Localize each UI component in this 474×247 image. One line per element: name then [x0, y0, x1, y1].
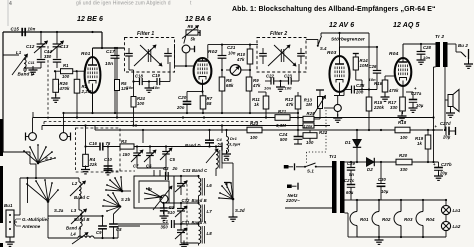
- svg-text:C3: C3: [163, 166, 169, 171]
- socket Bu1: [4, 203, 20, 246]
- wire riser x222 mid: [221, 124, 223, 133]
- svg-text:47k: 47k: [285, 102, 294, 107]
- ground input section: [29, 66, 38, 74]
- capacitor C8: [109, 208, 122, 239]
- svg-text:10n: 10n: [105, 61, 113, 66]
- label Band D osc: [185, 143, 201, 148]
- ground filter 2: [276, 80, 285, 92]
- wire Roe3 cathode stub: [334, 95, 340, 97]
- svg-text:C19: C19: [152, 73, 161, 78]
- svg-text:C26: C26: [369, 64, 378, 69]
- capacitor C30: [377, 161, 389, 200]
- svg-text:20n: 20n: [176, 105, 185, 110]
- wire left frame vertical: [3, 0, 8, 152]
- svg-text:C32: C32: [182, 198, 191, 203]
- svg-text:S.2d: S.2d: [235, 208, 245, 213]
- capacitor C31 variable: [175, 224, 187, 243]
- svg-text:12k: 12k: [121, 86, 129, 91]
- dashed gang trimmers: [107, 170, 135, 172]
- capacitor C27c electrolytic: [344, 170, 355, 200]
- svg-text:C27b: C27b: [441, 162, 452, 167]
- oscillator box outer: [134, 176, 174, 208]
- label C31 BandA: [182, 220, 207, 225]
- svg-text:Störbegrenzer: Störbegrenzer: [331, 37, 366, 43]
- svg-text:500: 500: [280, 137, 288, 142]
- svg-text:C8: C8: [116, 227, 122, 232]
- wire band bottom bus: [180, 241, 199, 247]
- capacitor C25: [341, 83, 377, 96]
- resistor R5: [115, 47, 129, 119]
- svg-text:Rö4: Rö4: [389, 51, 399, 57]
- wire riser x250 bus: [249, 113, 251, 122]
- svg-text:D2: D2: [367, 167, 373, 172]
- svg-text:C33: C33: [183, 168, 192, 173]
- svg-text:330: 330: [400, 167, 408, 172]
- svg-text:G.-Multiplier: G.-Multiplier: [22, 217, 49, 222]
- ground under S2d: [229, 213, 238, 221]
- left margin corner mark: [0, 243, 3, 247]
- heater Roe2: [372, 200, 391, 237]
- label G-Multiplier: [14, 217, 49, 229]
- inductor L8: [199, 224, 213, 246]
- svg-text:350: 350: [161, 225, 169, 230]
- svg-text:Band D: Band D: [185, 143, 201, 148]
- oscillator rotor: [144, 186, 172, 210]
- svg-text:470k: 470k: [59, 86, 70, 91]
- svg-text:Bu 2: Bu 2: [458, 43, 468, 48]
- wire input ground row: [24, 68, 41, 71]
- capacitor C21: [218, 45, 236, 70]
- ground heater chain: [375, 236, 384, 244]
- label C33 BandC: [183, 168, 209, 173]
- resistor R6 gain pot: [182, 24, 200, 44]
- jack circle a: [334, 104, 341, 111]
- wire Roe2 cathode row: [187, 90, 204, 92]
- tube type label 12BA6: [185, 16, 211, 23]
- capacitor C32 variable: [175, 203, 187, 225]
- capacitor C1: [118, 219, 200, 230]
- svg-text:S.1: S.1: [307, 169, 314, 174]
- svg-text:Rö3: Rö3: [404, 217, 413, 222]
- capacitor C15: [11, 27, 36, 37]
- svg-text:1M: 1M: [306, 102, 312, 107]
- capacitor C33 variable: [175, 176, 199, 195]
- wire riser to tube row: [101, 32, 103, 48]
- label Band A left: [66, 226, 81, 237]
- diode D2: [356, 158, 396, 172]
- resistor R15: [366, 97, 384, 130]
- wire band row C: [168, 175, 199, 177]
- svg-text:3,3µH: 3,3µH: [229, 142, 240, 147]
- inductor L2: [70, 178, 104, 210]
- wire box to row: [134, 170, 154, 176]
- wire Tr2 secondary top: [445, 44, 456, 130]
- wire B+ riser right: [433, 117, 435, 120]
- svg-text:330: 330: [390, 105, 398, 110]
- resistor R7: [200, 92, 213, 115]
- inductor L1: [3, 50, 35, 75]
- tube U2 Roe2: [194, 49, 218, 92]
- jack J2 left: [60, 112, 71, 141]
- wire filter2 to limiter: [306, 40, 318, 47]
- svg-text:L2: L2: [72, 181, 78, 186]
- svg-text:100: 100: [400, 135, 408, 140]
- resistor R18: [395, 120, 446, 140]
- resistor R25: [303, 111, 315, 122]
- capacitor C27d electrolytic: [435, 121, 456, 140]
- svg-text:C9: C9: [96, 230, 102, 235]
- svg-text:12 AV 6: 12 AV 6: [329, 22, 354, 29]
- filter 2 dashed box: [257, 31, 306, 72]
- svg-text:10n: 10n: [228, 51, 236, 56]
- svg-text:C11: C11: [28, 61, 35, 65]
- svg-text:C18: C18: [135, 74, 144, 79]
- wire limiter row: [321, 32, 369, 90]
- svg-text:S 2b: S 2b: [121, 197, 131, 202]
- ground under R26: [51, 92, 60, 102]
- svg-text:75: 75: [106, 141, 111, 146]
- capacitor C16: [86, 141, 121, 151]
- svg-text:220k: 220k: [373, 105, 384, 110]
- svg-text:10n: 10n: [423, 55, 431, 60]
- svg-text:R1: R1: [63, 63, 69, 68]
- svg-text:10n: 10n: [28, 27, 36, 32]
- inductor L4: [48, 216, 118, 244]
- filter 1 dashed box: [125, 31, 175, 72]
- svg-text:22k: 22k: [89, 162, 98, 167]
- switch S2a fan: [26, 179, 104, 217]
- wire anode row y48: [93, 47, 125, 49]
- dotted gang line to S1: [307, 110, 327, 163]
- switch S3 fan: [23, 144, 56, 164]
- svg-text:S.3: S.3: [45, 156, 52, 161]
- wire Tr1 secondary top: [345, 161, 358, 163]
- heater Roe4: [416, 200, 435, 237]
- capacitor C29: [347, 161, 356, 177]
- svg-text:1k: 1k: [254, 102, 259, 107]
- svg-text:Antenne: Antenne: [21, 224, 41, 229]
- svg-text:La2: La2: [453, 224, 461, 229]
- lamp La1: [441, 200, 460, 215]
- ground under R17: [398, 112, 407, 120]
- decoupling dashed box: [76, 128, 121, 172]
- oscillator box ground: [160, 203, 169, 220]
- filter 1 left capacitor: [125, 48, 133, 64]
- svg-text:1k: 1k: [417, 141, 422, 146]
- speaker Sp: [446, 90, 459, 118]
- wire tuner row end bar: [221, 143, 223, 151]
- svg-text:t: t: [190, 1, 192, 7]
- svg-text:2,2M: 2,2M: [81, 89, 92, 94]
- label Netz: [285, 193, 300, 203]
- resistor R24: [129, 64, 146, 127]
- wire tuner bottom junctions: [118, 226, 140, 238]
- svg-text:C5: C5: [170, 157, 176, 162]
- inductor L7: [199, 205, 213, 225]
- meter M1: [221, 65, 251, 76]
- filter 2 right capacitor: [297, 48, 305, 64]
- wire Tr1 heater tap: [345, 199, 356, 201]
- capacitor C12 variable: [26, 32, 48, 59]
- filter 2 tuned coils: [268, 45, 296, 66]
- svg-text:Dr1: Dr1: [230, 136, 238, 141]
- svg-text:C30: C30: [378, 177, 387, 182]
- svg-text:5n: 5n: [218, 142, 223, 147]
- resistor R20: [396, 153, 439, 172]
- junction dots buses: [76, 112, 446, 131]
- wire Tr2 primary bottom: [432, 67, 435, 163]
- capacitor C10: [104, 145, 113, 175]
- svg-text:R21: R21: [278, 109, 287, 114]
- wire Roe3 cathode jack: [339, 92, 341, 96]
- capacitor C17: [105, 48, 120, 113]
- capacitor C24: [279, 130, 302, 144]
- wire bus y125.5: [42, 126, 330, 131]
- svg-text:C21: C21: [227, 45, 236, 50]
- wire grid feed Roe4: [368, 90, 370, 98]
- ground under R16: [381, 93, 390, 101]
- svg-text:60µ: 60µ: [346, 190, 354, 195]
- switch S2c fan: [102, 192, 130, 212]
- jack J1 left: [26, 118, 37, 141]
- svg-text:Bu1: Bu1: [4, 203, 13, 208]
- capacitor C27a electrolytic: [406, 86, 424, 112]
- wire riser x420: [419, 113, 421, 118]
- capacitor C7 trimmer: [131, 147, 143, 169]
- capacitor C5 trimmer: [137, 147, 176, 177]
- svg-text:L4: L4: [71, 232, 77, 237]
- svg-text:10µ: 10µ: [416, 103, 424, 108]
- capacitor C13 variable: [50, 32, 69, 59]
- switch S1: [304, 163, 332, 174]
- wire bus y130: [95, 126, 443, 131]
- svg-text:Rö2: Rö2: [382, 217, 391, 222]
- resistor R14: [353, 54, 369, 91]
- capacitor C9: [96, 217, 107, 239]
- svg-text:C15: C15: [11, 27, 20, 32]
- wire pot to jack: [324, 107, 334, 109]
- inductor L5: [206, 147, 230, 177]
- jack test point: [182, 45, 194, 66]
- wire coil feed row: [20, 177, 79, 215]
- capacitor C20: [176, 92, 191, 115]
- svg-text:Filter 2: Filter 2: [270, 31, 287, 37]
- resistor R22: [303, 130, 328, 145]
- wire osc to S2d riser: [222, 151, 233, 200]
- resistor R19: [415, 130, 431, 162]
- inductor L3: [71, 208, 90, 238]
- capacitor C28: [417, 44, 432, 64]
- svg-text:12 AQ 5: 12 AQ 5: [393, 22, 420, 29]
- resistor 120k: [303, 123, 314, 128]
- svg-text:gli und die igen Hinweise zu: gli und die igen Hinweise zum Abgleich d: [76, 1, 171, 7]
- svg-text:5k: 5k: [191, 37, 196, 42]
- svg-text:S.2a: S.2a: [54, 208, 64, 213]
- wire heater rail top: [355, 199, 447, 201]
- svg-text:47k: 47k: [252, 83, 261, 88]
- svg-text:10µ: 10µ: [381, 189, 389, 194]
- svg-text:C27d: C27d: [440, 121, 451, 126]
- capacitor C26: [369, 47, 382, 90]
- resistor R21: [275, 109, 290, 128]
- svg-text:Band C: Band C: [192, 168, 208, 173]
- svg-text:C28: C28: [423, 45, 432, 50]
- svg-text:C25: C25: [356, 83, 365, 88]
- wire Tr2 secondary bottom: [448, 63, 453, 65]
- svg-text:R18: R18: [398, 120, 407, 125]
- capacitor C22: [264, 74, 275, 91]
- heater Roe3: [394, 200, 413, 237]
- svg-text:150: 150: [123, 152, 131, 157]
- svg-text:10M: 10M: [360, 63, 369, 68]
- svg-text:L7: L7: [207, 209, 213, 214]
- switch S2d fan: [218, 182, 245, 213]
- svg-text:C27c: C27c: [344, 178, 355, 183]
- capacitor C3: [160, 166, 178, 180]
- faint cropped caption text: [76, 1, 192, 7]
- svg-text:R16: R16: [374, 81, 383, 86]
- wire Tr1 secondary bottom: [345, 213, 358, 237]
- wire lamp return: [445, 231, 447, 237]
- svg-text:C16: C16: [89, 141, 98, 146]
- svg-text:C20: C20: [178, 95, 187, 100]
- svg-text:47k: 47k: [236, 57, 245, 62]
- capacitor C4: [205, 129, 223, 147]
- resistor R4: [81, 124, 97, 173]
- wire riser x63: [62, 113, 64, 118]
- svg-text:100: 100: [62, 74, 70, 79]
- svg-text:L1: L1: [16, 50, 22, 55]
- wire riser x143 to tuner: [142, 129, 144, 150]
- contact T bar: [224, 183, 231, 189]
- wire Roe3 plate row: [340, 46, 379, 48]
- capacitor C27b electrolytic: [433, 162, 452, 180]
- svg-text:10n: 10n: [153, 85, 161, 90]
- potentiometer R13 volume: [304, 90, 326, 119]
- svg-text:+: +: [435, 124, 438, 129]
- svg-text:68k: 68k: [226, 83, 234, 88]
- jack Bu2: [456, 43, 473, 68]
- wire bus dashed AGC: [44, 122, 262, 127]
- left margin black bar 1: [0, 119, 3, 156]
- svg-text:Rö1: Rö1: [81, 51, 91, 57]
- wire S2d stem: [232, 199, 234, 215]
- filter 1 tuned coils: [134, 45, 162, 66]
- lamp La2: [441, 215, 460, 231]
- svg-text:L5: L5: [224, 157, 230, 162]
- svg-text:470k: 470k: [388, 88, 399, 93]
- svg-text:20µ: 20µ: [442, 135, 451, 140]
- capacitor C18: [127, 74, 144, 91]
- capacitor C6 trimmer: [144, 147, 156, 169]
- oscillator box inner: [139, 181, 169, 203]
- svg-text:10n: 10n: [264, 86, 272, 91]
- tube U3 Roe3: [327, 47, 350, 96]
- resistor R12: [285, 92, 301, 130]
- page number: [9, 1, 12, 7]
- mains terminal lower: [285, 183, 332, 208]
- svg-text:D1: D1: [345, 140, 351, 145]
- wire heater rail bottom: [357, 236, 446, 238]
- wire Roe2 plate to filter2: [208, 44, 258, 59]
- svg-text:510: 510: [168, 210, 176, 215]
- svg-text:Abb. 1: Blockschaltung des All: Abb. 1: Blockschaltung des Allband-Empfä…: [232, 6, 436, 13]
- svg-text:Band A: Band A: [66, 226, 81, 231]
- dashed gang line band caps: [186, 180, 188, 245]
- svg-text:68: 68: [207, 101, 212, 106]
- resistor R9: [246, 70, 261, 113]
- svg-text:20µ: 20µ: [439, 171, 448, 176]
- ground filter 1: [145, 80, 154, 92]
- resistor R2: [74, 71, 92, 117]
- mains terminal upper: [284, 163, 305, 170]
- svg-text:R20: R20: [399, 153, 408, 158]
- resistor R11: [252, 92, 269, 118]
- switch S4 noise limiter: [317, 33, 327, 51]
- wire top rail: [3, 31, 102, 33]
- wire riser x160: [159, 118, 161, 126]
- tube type label 12BE6: [77, 16, 103, 23]
- svg-text:4: 4: [9, 1, 12, 7]
- switch S2b fan: [105, 176, 134, 192]
- wire bus B+ y117.5: [33, 112, 434, 118]
- tube type label 12AV6: [329, 22, 354, 29]
- resistor R23: [240, 121, 262, 140]
- resistor R3: [120, 139, 222, 157]
- wire Roe4 plate to Tr2: [403, 43, 436, 45]
- tube U4 Roe4: [389, 44, 411, 97]
- svg-text:C12: C12: [26, 44, 35, 49]
- wire bus AVC y113: [63, 112, 299, 114]
- svg-text:R3: R3: [121, 139, 127, 144]
- svg-text:Tr 2: Tr 2: [435, 34, 444, 40]
- svg-text:La1: La1: [453, 208, 461, 213]
- capacitor C2: [160, 203, 175, 215]
- svg-text:3,3M: 3,3M: [276, 123, 286, 128]
- svg-text:Filter 1: Filter 1: [137, 31, 154, 37]
- tube type label 12AQ5: [393, 22, 420, 29]
- svg-text:120k: 120k: [304, 123, 314, 128]
- svg-text:100: 100: [137, 101, 145, 106]
- resistor R10: [236, 45, 253, 70]
- svg-text:R23: R23: [250, 121, 259, 126]
- wire antenna row: [3, 152, 36, 164]
- heater Roe1: [350, 200, 369, 237]
- svg-text:Band B: Band B: [74, 217, 90, 222]
- svg-text:C17: C17: [106, 49, 115, 54]
- wire filter1 to Roe2 grid: [175, 44, 195, 67]
- wire S3 stem: [35, 164, 37, 179]
- svg-text:Rö3: Rö3: [327, 50, 337, 56]
- capacitor C14: [37, 49, 61, 68]
- ganging dashed line C12-C13: [47, 46, 49, 121]
- svg-text:Rö2: Rö2: [208, 49, 218, 55]
- svg-text:+: +: [414, 86, 417, 91]
- inductor Dr1: [222, 129, 240, 159]
- filter 1 right capacitor: [164, 48, 172, 64]
- svg-text:20n: 20n: [355, 90, 364, 95]
- filter 2 left capacitor: [259, 48, 267, 64]
- label Band D input: [18, 72, 35, 77]
- resistor R17: [388, 97, 405, 114]
- wire band row B: [162, 202, 199, 204]
- svg-text:2n: 2n: [172, 166, 178, 171]
- wire grid R11 row: [250, 91, 258, 93]
- svg-text:12 BE 6: 12 BE 6: [77, 16, 103, 23]
- svg-text:C1: C1: [163, 219, 169, 224]
- svg-text:Tr1: Tr1: [329, 154, 337, 159]
- svg-text:100: 100: [285, 86, 293, 91]
